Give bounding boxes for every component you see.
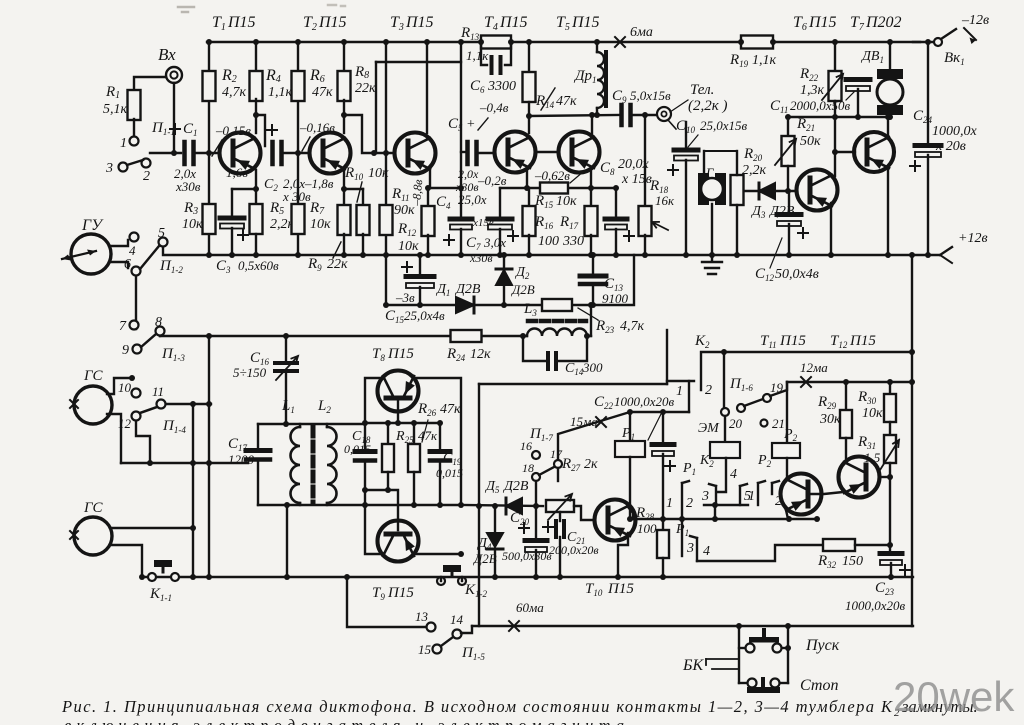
svg-text:500,0х30в: 500,0х30в	[502, 549, 552, 563]
generator G	[704, 150, 737, 152]
svg-text:2: 2	[143, 169, 150, 184]
switch P1-3 contacts 7-8-9	[135, 325, 137, 329]
wire BK lines	[706, 658, 739, 660]
svg-text:10к: 10к	[182, 217, 203, 232]
relay contacts P1 3-4 lower	[681, 519, 683, 556]
svg-text:R26: R26	[417, 401, 437, 418]
svg-text:С6: С6	[470, 78, 485, 95]
svg-text:R10: R10	[344, 165, 364, 182]
svg-text:30к: 30к	[819, 412, 841, 427]
capacitor C1 2,0x30v	[185, 142, 194, 164]
headphone jack Tel 2,2k	[657, 107, 671, 121]
svg-text:Вк1: Вк1	[944, 50, 965, 67]
wire y117 rail	[788, 116, 890, 118]
svg-text:R5: R5	[269, 200, 284, 217]
resistor R14 47k	[528, 42, 530, 72]
svg-text:10к: 10к	[398, 239, 419, 254]
transistor T9 P15	[378, 521, 419, 562]
button K1-1	[155, 561, 171, 566]
svg-text:2000,0х50в: 2000,0х50в	[790, 98, 851, 113]
svg-text:С24: С24	[913, 108, 933, 125]
svg-text:Г: Г	[705, 165, 714, 180]
svg-text:х30в: х30в	[455, 180, 479, 194]
tank top wire y424	[258, 423, 365, 425]
capacitor C10 25,0x15v	[685, 122, 687, 148]
svg-text:R13: R13	[460, 25, 480, 42]
svg-text:П15: П15	[227, 14, 256, 31]
resistor R25 47k	[387, 423, 389, 444]
svg-text:R2: R2	[221, 67, 237, 85]
wire collector rail y116	[529, 115, 619, 116]
capacitor C21 200,0x20v	[559, 512, 561, 521]
svg-text:R24: R24	[446, 346, 466, 363]
svg-text:П1-5: П1-5	[461, 645, 485, 662]
svg-text:С3: С3	[216, 258, 231, 275]
wire T3 feed y62	[376, 61, 461, 63]
wire y412 row	[630, 411, 689, 413]
svg-text:ЭМ: ЭМ	[698, 421, 720, 436]
svg-text:13: 13	[415, 609, 429, 624]
wire y490 to T9 base	[365, 490, 398, 530]
svg-text:П1-7: П1-7	[529, 426, 553, 443]
svg-text:R11: R11	[391, 186, 410, 203]
transistor T3 P15	[395, 133, 436, 174]
capacitor C20 500,0x30v	[535, 506, 537, 538]
transistor T1 P15	[220, 133, 261, 174]
wire top -12V bus	[207, 41, 920, 43]
wire 12ma line	[787, 381, 912, 383]
svg-text:К1-2: К1-2	[464, 582, 487, 599]
wire net y305 (detector line)	[386, 255, 634, 305]
scan smudge top left	[178, 7, 194, 12]
svg-text:R31: R31	[857, 434, 876, 451]
microphone GS lower	[74, 517, 112, 555]
svg-text:47к: 47к	[440, 402, 461, 417]
svg-text:100: 100	[637, 521, 657, 536]
svg-text:1,1к: 1,1к	[752, 53, 777, 68]
svg-text:15: 15	[418, 642, 432, 657]
wire EM feed	[723, 352, 725, 407]
svg-text:Д2В: Д2В	[502, 479, 529, 494]
svg-text:+: +	[466, 117, 475, 132]
wire control bottom bus y626	[462, 626, 472, 633]
svg-text:Р2: Р2	[757, 453, 772, 469]
svg-text:Т4: Т4	[484, 14, 498, 33]
motor DV1	[889, 42, 891, 70]
transistor T12 P15	[839, 457, 880, 498]
capacitor C11 2000,0x50v	[846, 77, 870, 82]
svg-text:х 30в: х 30в	[282, 189, 311, 204]
resistor R16 100	[528, 188, 530, 207]
wire bottom bus y577	[142, 576, 913, 578]
svg-text:П15: П15	[607, 581, 634, 597]
capacitor C22 1000,0x20v	[662, 412, 664, 442]
resistor R26 47k	[413, 423, 415, 444]
svg-text:50,0х4в: 50,0х4в	[775, 267, 819, 282]
capacitor C7 3,0x30v	[499, 188, 501, 217]
relay coil P2	[786, 382, 788, 443]
wire T1 emitter	[255, 170, 257, 189]
svg-text:0,5х60в: 0,5х60в	[238, 258, 279, 273]
wire T8 emitter right	[413, 378, 461, 505]
svg-text:25,0х4в: 25,0х4в	[404, 308, 445, 323]
svg-text:1: 1	[748, 489, 755, 504]
capacitor C18 0,015	[364, 423, 366, 449]
capacitor C15 25,0x4v	[419, 255, 421, 274]
svg-text:2: 2	[686, 496, 693, 511]
wire T6 base line with diode D3	[743, 190, 757, 192]
svg-text:L2: L2	[317, 398, 331, 415]
resistor R13 1,1k in bus	[481, 36, 511, 49]
svg-text:25,0х: 25,0х	[458, 192, 487, 207]
svg-text:R9: R9	[307, 256, 322, 273]
capacitor C19 0,015	[439, 423, 441, 449]
wire T11 base to T12 emitter	[809, 492, 843, 494]
svg-text:С14: С14	[565, 361, 584, 377]
svg-text:П1-2: П1-2	[159, 258, 183, 275]
capacitor C4 25,0x15v	[460, 188, 462, 217]
wire T2 emitter node	[343, 170, 345, 189]
capacitor C6 3300 bypass	[481, 42, 487, 65]
svg-text:Т2: Т2	[303, 14, 317, 33]
svg-text:ГС: ГС	[83, 500, 104, 516]
svg-text:П202: П202	[865, 14, 902, 31]
resistor R19 1,1k in bus	[741, 36, 773, 49]
svg-text:–1,8в: –1,8в	[304, 176, 334, 191]
svg-text:Т7: Т7	[850, 14, 865, 33]
svg-text:330: 330	[562, 234, 584, 249]
switch P1-7 contacts 16-17-18	[532, 451, 540, 459]
svg-text:R4: R4	[265, 67, 281, 85]
svg-text:–0,4в: –0,4в	[479, 100, 509, 115]
svg-text:1,3к: 1,3к	[800, 83, 825, 98]
svg-text:10: 10	[118, 380, 132, 395]
svg-text:П15: П15	[499, 14, 528, 31]
transistor T8 P15	[378, 371, 419, 412]
wire contact6 down to contact7	[135, 276, 137, 320]
svg-text:Р2: Р2	[783, 427, 798, 443]
resistor R24 12k	[451, 330, 482, 342]
svg-text:22к: 22к	[355, 81, 376, 96]
svg-text:Др1: Др1	[573, 68, 597, 85]
svg-text:7: 7	[119, 319, 127, 334]
svg-text:ДВ1: ДВ1	[860, 49, 884, 65]
button Pusk	[762, 630, 766, 637]
svg-text:Д5: Д5	[484, 479, 500, 495]
svg-text:5÷150: 5÷150	[233, 365, 267, 380]
svg-text:Т11: Т11	[760, 333, 777, 350]
wire GS2 leads	[110, 527, 193, 529]
tank bottom wire y505	[258, 504, 461, 506]
svg-text:R14: R14	[535, 93, 555, 110]
choke Dr1	[596, 42, 598, 52]
control box outline	[479, 383, 667, 385]
svg-text:П15: П15	[779, 333, 806, 349]
svg-text:–0,2в: –0,2в	[477, 173, 507, 188]
ground symbol	[702, 255, 722, 274]
resistor R31 1,5 variable	[889, 422, 891, 435]
capacitor C3 0,5x60v	[231, 189, 233, 216]
svg-text:1: 1	[676, 384, 683, 399]
switch P1-4 contacts 10-11-12	[132, 389, 141, 398]
capacitor C13 9100	[592, 255, 594, 273]
svg-text:Т1: Т1	[212, 14, 226, 33]
wire T8 collector left	[365, 378, 383, 423]
svg-text:100: 100	[538, 234, 559, 249]
resistor R3 10k	[208, 153, 210, 255]
wire T10 emitter	[618, 533, 628, 577]
svg-text:R30: R30	[857, 389, 877, 406]
resistor R8 22k collector load	[343, 42, 345, 100]
wire T3 emitter node	[429, 168, 431, 188]
wire pusk-stop right rail	[787, 626, 789, 683]
svg-text:12к: 12к	[470, 347, 491, 362]
svg-text:Стоп: Стоп	[800, 677, 838, 694]
capacitor C14 300	[523, 336, 546, 361]
svg-text:Р1: Р1	[682, 461, 696, 477]
resistor R4 1,1k collector load	[255, 42, 257, 99]
svg-text:БК: БК	[682, 657, 704, 674]
wire T9 collector left	[365, 505, 383, 554]
svg-text:включения электродвигателя и э: включения электродвигателя и электромагн…	[64, 716, 624, 725]
svg-text:С22: С22	[594, 394, 614, 411]
svg-text:Вх: Вх	[158, 45, 176, 64]
svg-text:1,1к: 1,1к	[268, 85, 293, 100]
wire emitter rail y188	[500, 187, 616, 189]
svg-text:Т3: Т3	[390, 14, 404, 33]
svg-text:R6: R6	[309, 67, 325, 85]
resistor R27 2k variable	[546, 500, 574, 512]
resistor R17 330	[590, 188, 592, 207]
svg-text:200,0х20в: 200,0х20в	[549, 543, 599, 557]
relay contacts P2 1-2	[758, 481, 765, 483]
svg-text:Т6: Т6	[793, 14, 807, 33]
svg-text:С7: С7	[466, 235, 481, 252]
wire R22 column to T7 base and T6 collector	[834, 101, 836, 176]
svg-text:150: 150	[842, 554, 863, 569]
svg-text:1200: 1200	[228, 452, 255, 467]
+12v terminal	[940, 247, 952, 255]
relay contact K2-2	[701, 352, 724, 390]
svg-text:2: 2	[775, 494, 782, 509]
svg-text:Т12: Т12	[830, 333, 848, 350]
button K1-2	[444, 566, 460, 571]
svg-text:Д1: Д1	[435, 282, 450, 298]
svg-text:R7: R7	[309, 200, 325, 217]
wire T10 collector	[628, 507, 633, 519]
transistor T5 P15	[559, 132, 600, 173]
diode D3 D2V	[759, 183, 775, 199]
svg-text:х 15в: х 15в	[621, 172, 652, 187]
svg-text:9: 9	[122, 343, 129, 358]
resistor R11 90k line	[385, 42, 387, 305]
svg-text:14: 14	[450, 612, 464, 627]
wire T11 emitter	[786, 510, 788, 519]
power switch Vk1	[913, 41, 933, 43]
wire contact12 drop	[136, 421, 150, 463]
svg-text:–12в: –12в	[961, 13, 989, 28]
resistor R30 10k	[889, 382, 891, 394]
resistor R6 47k	[297, 42, 299, 153]
svg-text:R19: R19	[729, 52, 749, 69]
svg-text:L3: L3	[523, 301, 537, 318]
svg-text:С2: С2	[264, 177, 278, 193]
x 6ma bus mark	[615, 37, 625, 47]
svg-text:1,6в: 1,6в	[226, 165, 248, 180]
relay contacts K2 3-4-5	[709, 484, 716, 486]
svg-text:С1: С1	[183, 121, 198, 138]
svg-text:С12: С12	[755, 266, 775, 283]
wire y423 row	[365, 422, 440, 424]
svg-text:С8: С8	[600, 160, 615, 177]
svg-text:R1: R1	[105, 84, 120, 101]
resistor R23 4,7k	[542, 299, 572, 311]
diode D2 D2V	[503, 255, 505, 268]
svg-text:R20: R20	[743, 146, 763, 163]
svg-text:(2,2к ): (2,2к )	[688, 98, 728, 114]
svg-text:Т9: Т9	[372, 585, 385, 602]
svg-text:П15: П15	[849, 333, 876, 349]
svg-text:К2: К2	[694, 333, 710, 350]
svg-text:1000,0х: 1000,0х	[932, 124, 978, 139]
svg-text:9100: 9100	[602, 291, 629, 306]
svg-text:Д2В: Д2В	[454, 282, 481, 297]
svg-text:R21: R21	[796, 116, 815, 133]
wire T12 collector to R29	[844, 438, 846, 462]
transistor T10 P15	[595, 500, 636, 541]
button Stop	[748, 679, 757, 688]
svg-text:П15: П15	[318, 14, 347, 31]
svg-text:R32: R32	[817, 553, 837, 570]
svg-text:–0,62в: –0,62в	[534, 168, 570, 183]
svg-text:П1-6: П1-6	[729, 376, 753, 393]
diode D5 D2V	[506, 498, 522, 514]
svg-text:–0,15в: –0,15в	[215, 123, 251, 138]
resistor R29 30k	[845, 382, 847, 410]
svg-text:х30в: х30в	[175, 179, 201, 194]
svg-text:8: 8	[155, 315, 162, 330]
transistor T7 P202	[854, 132, 894, 172]
svg-text:6ма: 6ма	[630, 25, 653, 40]
svg-text:П15: П15	[387, 346, 414, 362]
wire tank to bus	[286, 505, 288, 577]
svg-text:0,015: 0,015	[344, 442, 371, 456]
capacitor C23 1000,0x20v	[889, 545, 891, 551]
svg-text:R3: R3	[183, 200, 198, 217]
svg-text:1: 1	[120, 136, 127, 151]
svg-text:–3в: –3в	[395, 290, 415, 305]
wire input signal line y153	[150, 152, 181, 154]
coil L1	[299, 424, 301, 427]
wire contact row to R32	[697, 545, 823, 561]
svg-text:Т10: Т10	[585, 581, 603, 598]
svg-text:С23: С23	[875, 580, 895, 597]
svg-text:3300: 3300	[487, 79, 516, 94]
relay contacts P1 1-2	[682, 481, 689, 483]
svg-text:Т8: Т8	[372, 346, 385, 363]
svg-text:С15: С15	[385, 308, 405, 325]
microphone GU	[71, 234, 111, 274]
svg-text:П15: П15	[571, 14, 600, 31]
svg-text:С20: С20	[510, 510, 530, 527]
resistor R7 10k	[297, 153, 299, 255]
wire y463 link	[121, 462, 248, 464]
transistor T4 P15	[495, 132, 536, 173]
coil L3 with core	[523, 335, 527, 337]
switch P1-2 contacts 4-5-6	[130, 233, 139, 242]
svg-text:10к: 10к	[310, 217, 331, 232]
relay contact K2-1	[667, 380, 694, 382]
svg-text:R29: R29	[817, 394, 837, 411]
svg-text:С4: С4	[436, 194, 451, 211]
wire T3 collector to bus	[426, 42, 428, 133]
svg-text:10к: 10к	[556, 194, 577, 209]
microphone GS upper	[74, 386, 112, 424]
svg-text:С11: С11	[770, 98, 788, 115]
svg-text:К1-1: К1-1	[149, 586, 172, 603]
svg-text:47к: 47к	[312, 85, 333, 100]
transistor T11 P15	[781, 474, 822, 515]
svg-text:4: 4	[129, 243, 136, 258]
svg-text:С10: С10	[676, 118, 696, 135]
wire EM down	[724, 416, 726, 442]
svg-text:5,0х15в: 5,0х15в	[630, 88, 671, 103]
svg-text:3: 3	[686, 541, 694, 556]
resistor R15 10k	[540, 183, 568, 194]
svg-text:П1-4: П1-4	[162, 418, 186, 435]
svg-text:20wek: 20wek	[893, 673, 1015, 720]
electromagnet EM	[710, 442, 740, 458]
wire T9 emitter right	[413, 553, 461, 555]
resistor R5 2,2k	[255, 189, 257, 204]
switch P1-5 contacts 13-14-15	[427, 623, 436, 632]
resistor R32 150	[823, 539, 855, 551]
svg-text:Д2: Д2	[514, 265, 530, 281]
svg-text:R15: R15	[534, 193, 554, 210]
capacitor C2 2,0x30v	[273, 142, 282, 164]
wire base line y506	[461, 505, 543, 506]
resistor R9 22k	[343, 189, 345, 205]
svg-text:С9: С9	[612, 88, 627, 105]
svg-text:3: 3	[701, 489, 709, 504]
diode D4 D2V	[494, 506, 496, 533]
svg-text:Т5: Т5	[556, 14, 570, 33]
svg-text:ГУ: ГУ	[81, 217, 104, 234]
resistor R21 50k	[787, 117, 789, 137]
wire GS1 leads	[107, 378, 132, 394]
svg-text:2,2к: 2,2к	[742, 163, 767, 178]
svg-text:П15: П15	[405, 14, 434, 31]
svg-text:Тел.: Тел.	[690, 82, 714, 98]
svg-text:ГС: ГС	[83, 368, 104, 384]
wire T8 base down	[397, 398, 399, 423]
svg-text:2,0х: 2,0х	[458, 167, 479, 181]
svg-text:4,7к: 4,7к	[620, 319, 645, 334]
resistor R22 1,3k	[834, 42, 836, 70]
transistor T6 P15	[797, 170, 838, 211]
resistor R12 10k	[427, 188, 429, 207]
svg-text:R12: R12	[397, 221, 417, 238]
svg-text:R17: R17	[559, 214, 579, 231]
wire T12 base right	[880, 476, 890, 478]
resistor R20 2,2k	[731, 175, 744, 205]
svg-text:Пуск: Пуск	[805, 637, 840, 654]
svg-text:18: 18	[522, 461, 534, 475]
svg-text:Р1: Р1	[621, 426, 635, 442]
capacitor C17 1200	[257, 424, 259, 447]
wire left verticals	[192, 404, 194, 577]
relay coil P1	[629, 412, 631, 441]
